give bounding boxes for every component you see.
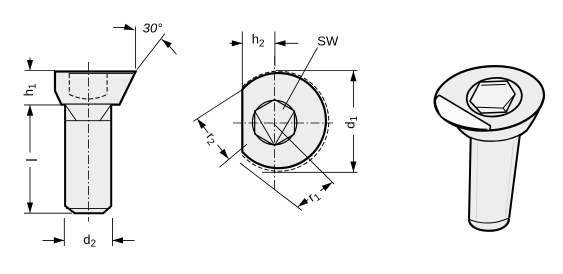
- head top chamfer line: [69, 73, 133, 75]
- centerline left view: [88, 62, 90, 222]
- r2 dimension line with arrows: [197, 119, 213, 139]
- hex socket hidden bottom cone: [69, 94, 107, 99]
- hex socket: [255, 100, 295, 146]
- screw shank fill: [65, 105, 111, 214]
- hex socket hidden right edge: [106, 74, 108, 95]
- r2 label: [201, 128, 224, 151]
- horizontal centerline: [233, 122, 333, 124]
- r1 extension line through center (45deg): [274, 124, 335, 185]
- 30deg: vertical extension line: [135, 27, 137, 69]
- r1 tangent extension line: [240, 163, 302, 211]
- socket cone line left: [255, 111, 275, 146]
- 30deg: left arc arrow: [113, 27, 135, 30]
- shank highlight lines: [476, 142, 477, 219]
- d1 dimension line with arrows: [352, 71, 354, 108]
- flat facet on head: [435, 95, 490, 130]
- r2 extension line lower: [220, 144, 247, 167]
- r2 extension line upper (through flat top corner): [193, 90, 242, 122]
- svg-text:30°: 30°: [143, 21, 163, 36]
- h2 extension line right: [274, 32, 276, 67]
- cone right silhouette edge: [520, 98, 544, 136]
- screw head (countersunk, side view): [55, 72, 136, 105]
- shank right edge: [110, 105, 112, 207]
- shank bottom face arc: [469, 218, 509, 231]
- svg-text:SW: SW: [317, 34, 339, 49]
- hex socket 3D: [470, 81, 515, 113]
- extension line head top: [25, 70, 56, 72]
- d1 extension line bottom: [262, 171, 358, 173]
- shank left edge: [469, 138, 471, 219]
- svg-text:h2: h2: [252, 32, 265, 50]
- hidden full circle d1 (dashed): [242, 71, 328, 171]
- d2 extension lines: [63, 218, 65, 246]
- extension line head bottom: [24, 104, 62, 106]
- h2 arrows (outside): [230, 42, 243, 44]
- l dimension line with arrows: [29, 105, 31, 152]
- shank right edge: [509, 135, 520, 218]
- socket circle: [252, 100, 296, 144]
- svg-text:d2: d2: [83, 232, 96, 250]
- d1 extension line top: [276, 70, 358, 72]
- hex socket bottom walls: [470, 84, 515, 113]
- h2 extension line left: [241, 32, 243, 89]
- 30deg: right arc arrow: [162, 39, 177, 54]
- socket cone line right: [275, 111, 295, 146]
- extension line shank bottom: [24, 212, 72, 214]
- svg-text:d1: d1: [342, 115, 360, 128]
- thread runout left: [66, 105, 77, 120]
- screw body silhouette fill: [435, 66, 544, 231]
- head outline with flat (solid): [242, 73, 326, 168]
- chamfer top thin line: [66, 207, 110, 209]
- thread start line: [65, 120, 111, 122]
- svg-text:h1: h1: [21, 83, 39, 96]
- head bottom circle arc: [459, 129, 527, 141]
- cone left lower edge: [457, 125, 471, 138]
- shank bottom chamfer: [65, 206, 112, 214]
- d2 dimension arrows (outside): [43, 239, 65, 241]
- thread runout right: [100, 105, 111, 120]
- r1 label: [304, 184, 326, 207]
- 30deg: cone edge extension line: [137, 34, 165, 70]
- facet inner chamfer line: [450, 122, 487, 129]
- vertical centerline: [274, 56, 276, 190]
- shank left edge: [64, 105, 66, 207]
- svg-text:l: l: [25, 158, 41, 161]
- head top rim ellipse: [432, 62, 547, 135]
- h1 dimension arrows (outside): [29, 58, 31, 71]
- r1 dimension line with arrows: [314, 182, 333, 195]
- hex socket hidden left edge: [68, 74, 70, 95]
- shank bottom chamfer thin arc: [469, 218, 509, 223]
- SW leader line: [283, 48, 318, 110]
- socket rim ellipse: [465, 75, 524, 119]
